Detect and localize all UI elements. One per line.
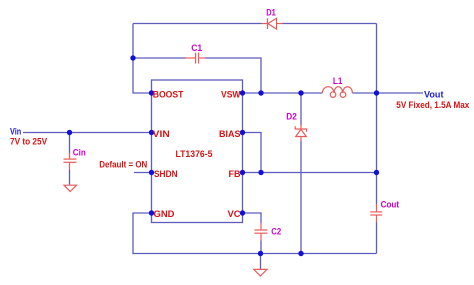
capacitor C2 — [254, 223, 267, 241]
wire left vertical from top rail to BOOST level — [133, 24, 152, 94]
wire top rail right of D1 — [283, 23, 377, 25]
wire D2 anode to ground rail — [300, 141, 302, 254]
node FB pin — [240, 170, 245, 175]
node BIAS-FB junction — [258, 170, 263, 175]
wire SHDN stub — [134, 172, 152, 174]
wire C1 branch horizontal — [133, 57, 186, 59]
svg-text:Vin: Vin — [10, 127, 21, 137]
wire right vertical top rail to Vout node — [376, 24, 378, 94]
svg-text:VIN: VIN — [153, 129, 170, 139]
node D2 anode junction — [298, 251, 303, 256]
wire Cin branch down — [69, 133, 71, 154]
node D2 cathode junction — [298, 90, 303, 95]
wire top rail left of D1 — [133, 23, 262, 25]
wire Vin to VIN pin — [23, 132, 152, 134]
node VIN pin — [149, 130, 154, 135]
node C1 left junction — [130, 55, 135, 60]
wire VSW to L1 — [243, 92, 323, 94]
diode D2 (schottky catch diode) — [295, 125, 306, 142]
node GND pin — [149, 210, 154, 215]
node C1 right / VSW junction — [258, 90, 263, 95]
wire Cout bottom to ground rail — [376, 222, 378, 254]
node VC pin — [240, 210, 245, 215]
wire Vout node down to Cout — [376, 93, 378, 205]
svg-text:Cin: Cin — [73, 148, 86, 158]
wire C1 to VSW corner — [205, 58, 261, 93]
capacitor Cin — [64, 153, 77, 170]
svg-text:5V Fixed, 1.5A Max: 5V Fixed, 1.5A Max — [396, 100, 469, 110]
wire L1 to Vout — [352, 92, 423, 94]
svg-text:SHDN: SHDN — [154, 169, 178, 179]
wire BIAS loop to FB node — [243, 133, 262, 173]
svg-text:BOOST: BOOST — [153, 90, 184, 100]
node BIAS pin — [240, 130, 245, 135]
svg-text:BIAS: BIAS — [219, 129, 241, 139]
svg-text:C1: C1 — [191, 43, 202, 53]
wire ground stub below bottom rail — [260, 254, 262, 270]
svg-text:Vout: Vout — [424, 90, 444, 100]
svg-text:VC: VC — [228, 209, 242, 219]
wire GND return loop — [133, 213, 377, 254]
capacitor Cout — [370, 204, 382, 222]
svg-text:7V to 25V: 7V to 25V — [10, 137, 47, 147]
wire VC to C2 top — [243, 213, 262, 223]
svg-text:L1: L1 — [333, 76, 343, 86]
svg-text:VSW: VSW — [221, 90, 241, 100]
svg-text:Cout: Cout — [381, 200, 400, 210]
svg-text:LT1376-5: LT1376-5 — [176, 149, 213, 159]
inductor L1 — [322, 87, 352, 98]
wire Cin to ground — [69, 170, 71, 185]
node Vout junction — [374, 90, 379, 95]
node VSW pin — [240, 90, 245, 95]
node Cin junction — [67, 130, 72, 135]
svg-text:FB: FB — [229, 169, 241, 179]
op-amp U1 LT1376-5 body — [152, 80, 243, 223]
wire D2 cathode to VSW rail — [300, 93, 302, 125]
node SHDN pin — [149, 170, 154, 175]
svg-text:GND: GND — [154, 209, 176, 219]
svg-text:D1: D1 — [266, 8, 276, 18]
node FB-Cout junction — [374, 170, 379, 175]
ground (Cin) — [64, 185, 77, 191]
wire FB to output divider node — [243, 172, 377, 174]
node C2-ground junction — [258, 251, 263, 256]
svg-text:C2: C2 — [271, 226, 281, 236]
node BOOST pin — [149, 90, 154, 95]
wire C2 bottom to ground rail — [260, 241, 262, 254]
diode D1 — [262, 18, 284, 29]
svg-text:D2: D2 — [286, 112, 297, 122]
capacitor C1 — [185, 53, 205, 64]
svg-text:Default = ON: Default = ON — [99, 160, 147, 170]
ground (C2, bottom rail) — [254, 269, 267, 276]
